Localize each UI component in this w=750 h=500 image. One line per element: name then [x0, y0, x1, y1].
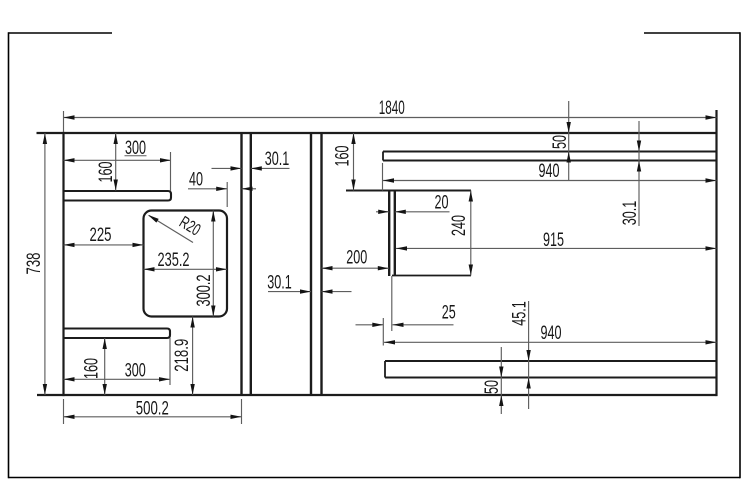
dimension 160 upper-right label — [332, 145, 354, 166]
svg-text:45.1: 45.1 — [509, 301, 531, 326]
dimension 200 line — [322, 267, 389, 269]
dimension 240 label — [448, 215, 470, 236]
svg-text:300: 300 — [125, 360, 146, 382]
radius R20 label — [176, 212, 204, 239]
dimension 500.2 extension right — [241, 399, 243, 424]
dimension 30.1 right line — [638, 121, 640, 226]
rounded rectangular cutout — [144, 211, 228, 317]
dimension 1840 label — [379, 97, 405, 119]
slot wall extension line — [391, 276, 393, 331]
dimension 160 lower-left line — [104, 338, 106, 395]
dimension 940 upper line — [383, 180, 717, 182]
svg-text:1840: 1840 — [379, 97, 405, 119]
upper-left shelf tab — [64, 191, 172, 201]
dimension 240 line — [470, 191, 472, 276]
dimension 235.2 label — [158, 249, 190, 271]
frame border right edge — [739, 32, 741, 478]
dimension 30.1 middle line left part with label underline — [268, 291, 311, 293]
dimension 160 upper-left label — [95, 161, 117, 182]
dimension 300.2 label — [193, 275, 215, 307]
dimension 25 extension tick — [382, 318, 384, 346]
vertical channel line 2a — [310, 133, 312, 395]
dimension 50 lower line — [500, 347, 502, 414]
dimension 45.1 line — [528, 301, 530, 409]
svg-text:200: 200 — [346, 247, 367, 269]
dimension 1840 extension left — [63, 111, 65, 132]
svg-text:50: 50 — [549, 135, 571, 149]
svg-text:940: 940 — [541, 322, 562, 344]
dimension 300 upper-left line — [64, 159, 172, 161]
dimension 40 line left part — [188, 188, 227, 190]
svg-text:160: 160 — [95, 161, 117, 182]
dimension 20 line left part — [376, 211, 389, 213]
dimension 20 label — [435, 192, 449, 214]
svg-text:300.2: 300.2 — [193, 275, 215, 307]
dimension 1840 line — [64, 117, 717, 119]
upper-right rail left end cap — [382, 152, 384, 161]
dimension 40 extension tick — [226, 182, 228, 207]
svg-text:738: 738 — [23, 253, 45, 275]
svg-text:915: 915 — [543, 229, 564, 251]
svg-text:R20: R20 — [176, 212, 204, 239]
lower-right rail bottom edge — [385, 377, 717, 379]
dimension 300 upper-left label underline — [125, 155, 147, 157]
dimension 30.1 middle label — [267, 272, 292, 294]
part top edge — [37, 132, 717, 134]
dimension 940 lower label — [541, 322, 562, 344]
frame border left edge — [8, 32, 10, 478]
svg-text:25: 25 — [442, 302, 456, 324]
dimension 25 label — [442, 302, 456, 324]
part right edge (extension for 1840/940/915) — [715, 110, 717, 396]
lower-right rail top edge — [385, 360, 717, 362]
radius R20 leader line — [149, 216, 193, 243]
frame border bottom edge — [9, 477, 741, 479]
dimension 25 line right part — [393, 324, 454, 326]
svg-text:160: 160 — [81, 358, 103, 379]
slot right wall — [394, 191, 396, 277]
part left edge — [62, 132, 64, 396]
frame border top-right segment — [644, 32, 740, 34]
svg-text:40: 40 — [189, 169, 203, 191]
dimension 160 upper-right line — [353, 133, 355, 191]
slot top edge — [346, 190, 471, 192]
dimension 225 line — [64, 244, 144, 246]
dimension 30.1 upper line left part — [212, 167, 242, 169]
svg-text:20: 20 — [435, 192, 449, 214]
dimension 500.2 label — [136, 397, 169, 419]
dimension 300 upper-left label — [125, 137, 146, 159]
slot bottom edge — [392, 275, 471, 277]
dimension 25 line left part — [356, 324, 384, 326]
dimension 940 upper extension — [382, 163, 384, 191]
dimension 160 lower-left label — [81, 358, 103, 379]
dimension 30.1 right label — [619, 201, 641, 226]
dimension 218.9 label — [171, 339, 193, 372]
dimension 300 lower-left label — [125, 360, 146, 382]
dimension 200 label — [346, 247, 367, 269]
dimension 235.2 line — [144, 268, 228, 270]
dimension 300 lower-left line — [64, 378, 171, 380]
dimension 940 upper label — [539, 160, 560, 182]
svg-text:225: 225 — [90, 224, 112, 246]
vertical channel line 1a — [240, 133, 242, 395]
dimension 225 label — [90, 224, 112, 246]
vertical channel line 2b — [320, 133, 322, 395]
upper-right rail bottom edge — [383, 160, 717, 162]
dimension 738 line — [44, 133, 46, 395]
lower-left shelf tab — [64, 329, 171, 339]
vertical channel line 1b — [250, 133, 252, 395]
dimension 738 label — [23, 253, 45, 275]
dimension 915 label — [543, 229, 564, 251]
svg-text:30.1: 30.1 — [619, 201, 641, 226]
svg-text:940: 940 — [539, 160, 560, 182]
dimension 915 line — [396, 247, 717, 249]
svg-text:235.2: 235.2 — [158, 249, 190, 271]
dimension 40 label — [189, 169, 203, 191]
frame border top-left segment — [9, 32, 113, 34]
svg-text:50: 50 — [481, 380, 503, 394]
dimension 160 upper-left line — [115, 133, 117, 191]
dimension 300 lower-left extension — [169, 338, 171, 385]
dimension 40 line right part — [242, 188, 257, 190]
dimension 30.1 upper label — [265, 148, 290, 170]
dimension 30.1 upper line right part with label underline — [251, 167, 290, 169]
lower-right rail left end cap — [384, 361, 386, 378]
dimension 50 upper label — [549, 135, 571, 149]
dimension 45.1 label — [509, 301, 531, 326]
svg-text:218.9: 218.9 — [171, 339, 193, 372]
upper-right rail top edge — [383, 151, 717, 153]
dimension 500.2 line — [64, 416, 242, 418]
dimension 218.9 line — [192, 317, 194, 396]
dimension 300.2 line — [212, 211, 214, 317]
dimension 500.2 extension left — [63, 399, 65, 424]
dimension 20 line right part with label underline — [395, 211, 450, 213]
svg-text:500.2: 500.2 — [136, 397, 169, 419]
dimension 50 upper line — [568, 101, 570, 181]
svg-text:30.1: 30.1 — [267, 272, 292, 294]
slot left wall — [388, 191, 390, 277]
svg-text:240: 240 — [448, 215, 470, 236]
svg-text:160: 160 — [332, 145, 354, 166]
dimension 940 lower line — [384, 341, 717, 343]
dimension 30.1 middle line right part — [322, 291, 352, 293]
part bottom edge — [37, 394, 717, 396]
dimension 50 lower label — [481, 380, 503, 394]
svg-text:30.1: 30.1 — [265, 148, 290, 170]
dimension 300 upper-left extension — [170, 152, 172, 191]
